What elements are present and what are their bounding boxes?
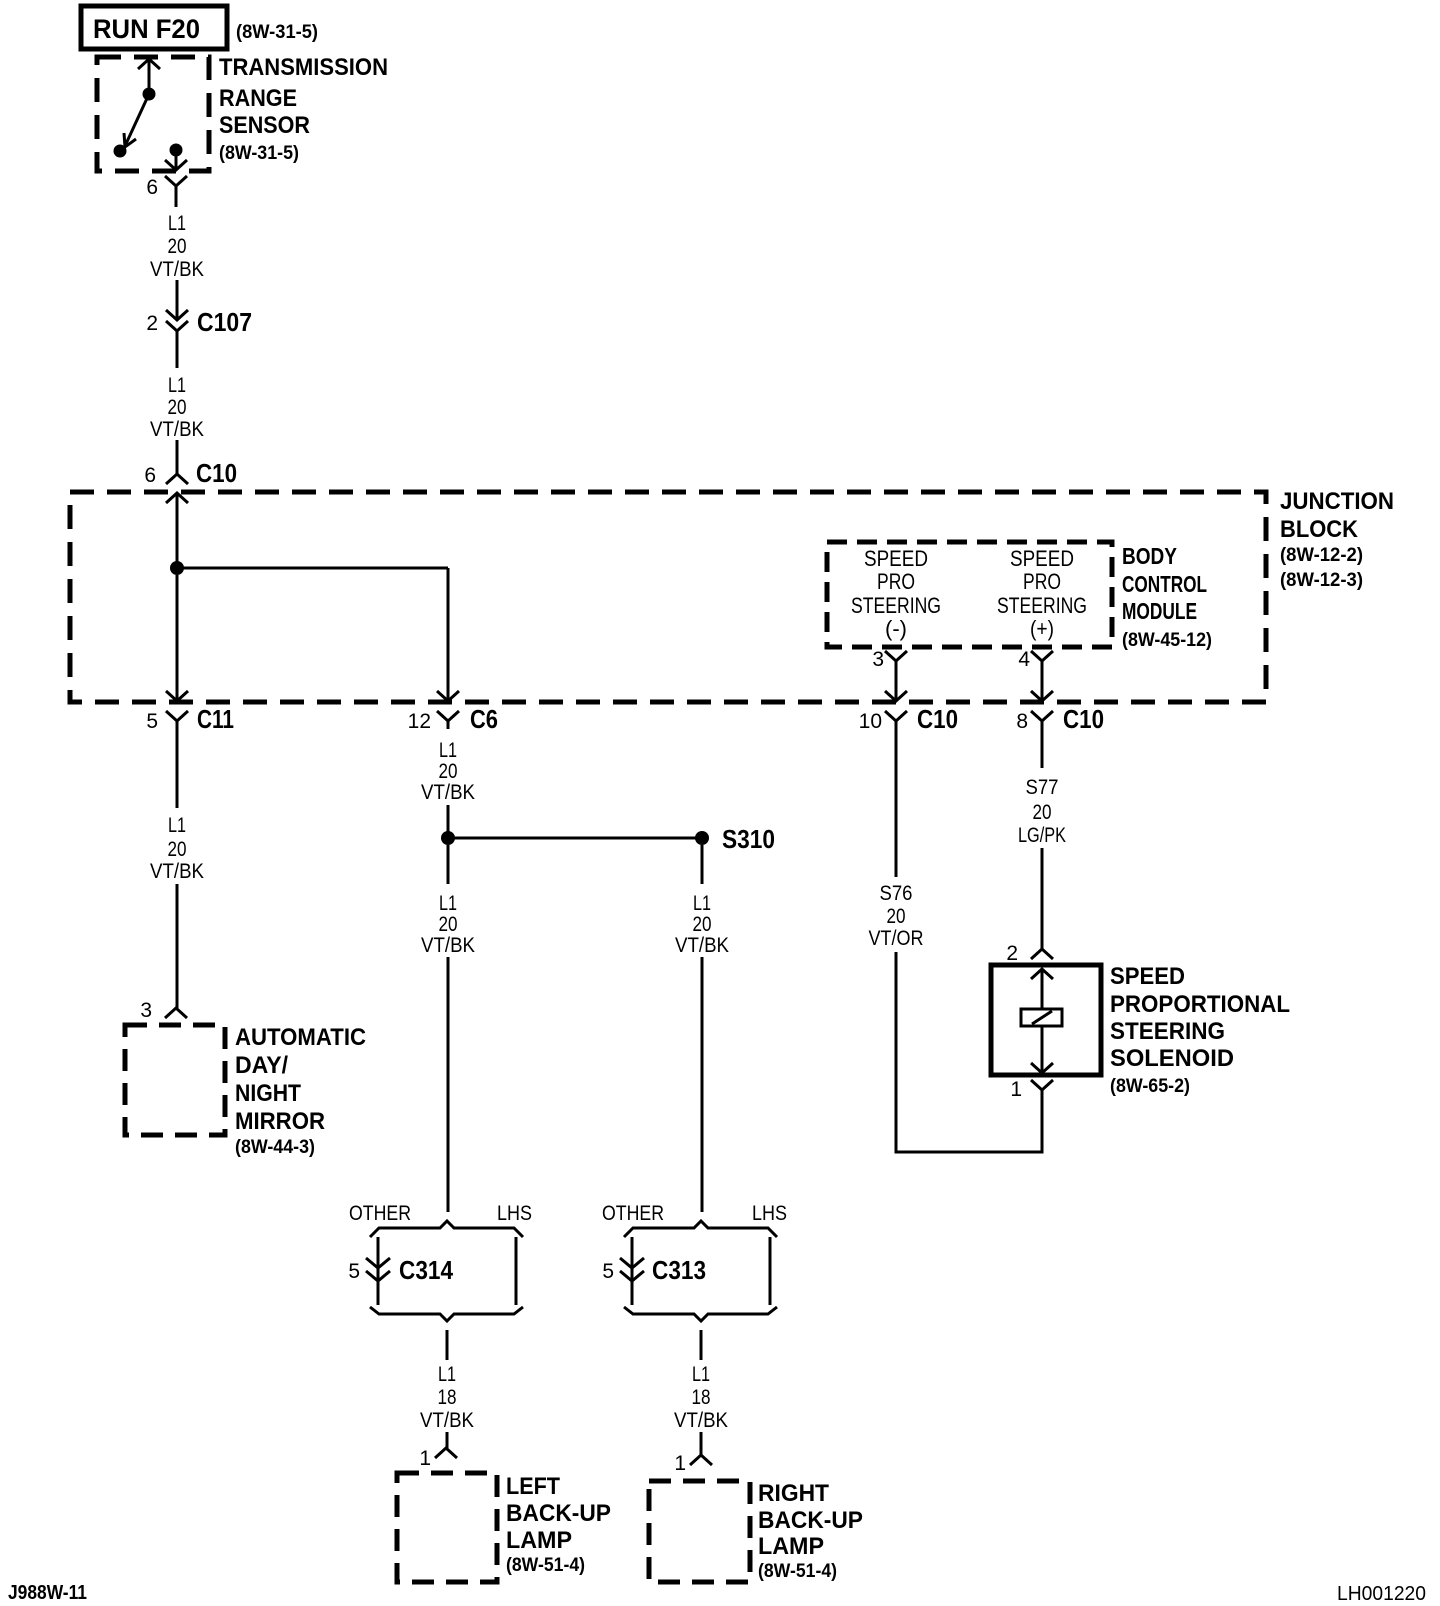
wire label S77 20 LG/PK [1018, 776, 1066, 847]
svg-text:STEERING: STEERING [997, 593, 1087, 618]
svg-text:SPEED: SPEED [1110, 963, 1185, 990]
svg-text:(8W-65-2): (8W-65-2) [1110, 1076, 1190, 1097]
switch stationary contact dot left [114, 145, 127, 158]
svg-text:BLOCK: BLOCK [1280, 516, 1359, 543]
svg-text:(8W-12-2): (8W-12-2) [1280, 545, 1363, 566]
splice name S310 [722, 824, 775, 854]
svg-text:AUTOMATIC: AUTOMATIC [235, 1024, 366, 1051]
svg-text:1: 1 [419, 1447, 431, 1470]
wire S310 right branch down [701, 845, 704, 884]
wire C10-10 down [895, 729, 898, 877]
wire label L1 20 VT/BK segment 2 [150, 374, 204, 441]
pin 8 label [1016, 710, 1028, 733]
svg-text:BODY: BODY [1122, 543, 1177, 569]
svg-text:BACK-UP: BACK-UP [506, 1500, 611, 1527]
wire label L1 20 VT/BK left branch [421, 892, 475, 957]
svg-text:SPEED: SPEED [864, 546, 928, 571]
wire to left lamp [446, 1432, 449, 1448]
svg-text:SOLENOID: SOLENOID [1110, 1045, 1234, 1072]
solenoid box [991, 965, 1101, 1075]
svg-text:18: 18 [692, 1386, 711, 1409]
wire label L1 18 VT/BK left lamp [420, 1363, 474, 1432]
solenoid name text [1110, 963, 1290, 1097]
reference (8W-31-5) for RUN F20 [236, 22, 318, 43]
left back-up lamp dashed box [397, 1473, 497, 1582]
pin 1 label at right lamp [674, 1452, 686, 1475]
svg-text:L1: L1 [692, 1363, 710, 1386]
wire C11 down [176, 728, 179, 808]
node junction dot inside block [170, 561, 184, 575]
svg-text:PRO: PRO [877, 569, 915, 594]
svg-text:SENSOR: SENSOR [219, 112, 310, 139]
right lamp text [758, 1480, 863, 1582]
connector fork C6 pin 12 [437, 711, 459, 729]
svg-text:3: 3 [140, 999, 152, 1022]
BCM pin label speed pro steering plus [997, 546, 1087, 641]
svg-text:STEERING: STEERING [1110, 1018, 1225, 1045]
splice S310 right dot [695, 831, 709, 845]
svg-text:TRANSMISSION: TRANSMISSION [219, 54, 388, 81]
connector fork BCM pin 3 [885, 651, 907, 666]
wire C6 to splice S310 [447, 805, 450, 838]
mirror label text [235, 1024, 366, 1158]
arrow inside solenoid bottom [1031, 1063, 1053, 1073]
connector name C314 [399, 1255, 453, 1285]
svg-text:BACK-UP: BACK-UP [758, 1507, 863, 1534]
wire C10-8 down [1041, 729, 1044, 768]
svg-text:OTHER: OTHER [602, 1202, 664, 1225]
pin 5 label at C314 [348, 1260, 360, 1283]
connector C314 left branch with chevrons [366, 1237, 390, 1305]
svg-text:C10: C10 [1063, 704, 1104, 734]
svg-text:VT/BK: VT/BK [674, 1409, 728, 1432]
svg-text:STEERING: STEERING [851, 593, 941, 618]
connector C313 bracket bottom [624, 1307, 777, 1321]
pin 5 label at C313 [602, 1260, 614, 1283]
svg-text:1: 1 [674, 1452, 686, 1475]
svg-text:VT/BK: VT/BK [420, 1409, 474, 1432]
svg-text:L1: L1 [438, 1363, 456, 1386]
svg-text:VT/BK: VT/BK [675, 934, 729, 957]
label OTHER at C313 [602, 1202, 664, 1225]
connector fork C10 pin 6 [166, 474, 188, 484]
connector fork C10 pin 8 [1031, 711, 1053, 729]
svg-text:VT/BK: VT/BK [150, 860, 204, 883]
splice S310 left dot [441, 831, 455, 845]
svg-text:L1: L1 [168, 814, 186, 837]
svg-text:LEFT: LEFT [506, 1473, 560, 1500]
svg-text:JUNCTION: JUNCTION [1280, 488, 1394, 515]
svg-text:VT/BK: VT/BK [150, 258, 204, 281]
connector fork BCM pin 4 [1031, 651, 1053, 666]
svg-text:C10: C10 [917, 704, 958, 734]
wire label S76 20 VT/OR [869, 882, 924, 950]
svg-text:(8W-45-12): (8W-45-12) [1122, 630, 1212, 651]
svg-text:S76: S76 [880, 882, 913, 905]
wire to right lamp [700, 1432, 703, 1455]
pin 10 label [859, 710, 882, 733]
wire BCM pin 3 to C10-10 [885, 666, 907, 701]
pin 5 label at C11 [146, 710, 158, 733]
svg-text:C11: C11 [197, 704, 234, 734]
svg-text:C107: C107 [197, 307, 252, 337]
svg-text:20: 20 [887, 905, 906, 928]
pin 6 label at C10 [144, 464, 156, 487]
svg-text:LH001220: LH001220 [1337, 1583, 1426, 1605]
connector C314 bracket bottom [370, 1307, 523, 1321]
svg-text:DAY/: DAY/ [235, 1052, 288, 1079]
wire from contact to pin 6 with arrow [165, 156, 187, 170]
pin 1 label at left lamp [419, 1447, 431, 1470]
wire node to C6 branch horizontal [177, 567, 448, 570]
svg-text:SPEED: SPEED [1010, 546, 1074, 571]
svg-text:LAMP: LAMP [506, 1527, 572, 1554]
svg-text:VT/BK: VT/BK [421, 781, 475, 804]
svg-text:L1: L1 [439, 739, 457, 762]
svg-text:LHS: LHS [497, 1202, 532, 1225]
svg-text:20: 20 [439, 760, 458, 783]
connector fork solenoid pin 2 [1031, 949, 1053, 959]
connector name C10 pin8 [1063, 704, 1104, 734]
connector name C313 [652, 1255, 706, 1285]
body control module dashed box [827, 542, 1112, 647]
wire label L1 20 VT/BK right branch [675, 892, 729, 957]
svg-text:(8W-44-3): (8W-44-3) [235, 1137, 315, 1158]
svg-text:18: 18 [438, 1386, 457, 1409]
connector fork left lamp pin 1 [435, 1448, 457, 1458]
wire label L1 18 VT/BK right lamp [674, 1363, 728, 1432]
svg-text:VT/BK: VT/BK [150, 418, 204, 441]
svg-text:NIGHT: NIGHT [235, 1080, 301, 1107]
svg-text:4: 4 [1018, 648, 1030, 671]
svg-text:S77: S77 [1026, 776, 1059, 799]
svg-text:20: 20 [693, 913, 712, 936]
svg-text:20: 20 [168, 838, 187, 861]
arrow at C6 exit [437, 691, 459, 701]
junction block dashed outline [70, 492, 1266, 702]
arrow inside solenoid top [1031, 969, 1053, 979]
svg-text:6: 6 [146, 176, 158, 199]
svg-text:(-): (-) [885, 616, 907, 641]
label LHS at C314 [497, 1202, 532, 1225]
svg-text:12: 12 [408, 710, 431, 733]
BCM pin label speed pro steering minus [851, 546, 941, 641]
connector fork mirror pin 3 [165, 1008, 187, 1018]
svg-text:RUN F20: RUN F20 [93, 14, 200, 44]
svg-text:VT/BK: VT/BK [421, 934, 475, 957]
wire down to C313 [701, 957, 704, 1212]
svg-text:RIGHT: RIGHT [758, 1480, 829, 1507]
connector C313 bracket top [624, 1221, 777, 1237]
footer drawing number left [8, 1582, 87, 1604]
arrow entering junction block at C10-6 [166, 493, 188, 503]
connector fork C10 pin 10 [885, 711, 907, 729]
svg-text:20: 20 [439, 913, 458, 936]
svg-text:MODULE: MODULE [1122, 598, 1197, 624]
pin 2 label at solenoid [1006, 942, 1018, 965]
connector C314 bracket top [370, 1221, 523, 1237]
svg-text:PRO: PRO [1023, 569, 1061, 594]
wire TRS to C107 [176, 280, 179, 318]
svg-text:5: 5 [146, 710, 158, 733]
svg-text:5: 5 [348, 1260, 360, 1283]
right back-up lamp dashed box [649, 1481, 750, 1582]
switch contact dot pin 6 [170, 144, 183, 157]
pin 3 label at BCM [872, 648, 884, 671]
svg-text:10: 10 [859, 710, 882, 733]
svg-text:(8W-31-5): (8W-31-5) [219, 143, 299, 164]
pin 3 label at mirror [140, 999, 152, 1022]
svg-text:L1: L1 [168, 212, 186, 235]
connector fork C11 pin 5 [166, 711, 188, 728]
svg-text:L1: L1 [693, 892, 711, 915]
connector name C10 pin10 [917, 704, 958, 734]
TRS label text [219, 54, 388, 164]
wire down to C314 [447, 957, 450, 1212]
svg-text:OTHER: OTHER [349, 1202, 411, 1225]
wire label L1 20 VT/BK below C11 [150, 814, 204, 883]
svg-text:L1: L1 [439, 892, 457, 915]
pin 12 label at C6 [408, 710, 431, 733]
svg-text:C10: C10 [196, 458, 237, 488]
label LHS at C313 [752, 1202, 787, 1225]
svg-text:MIRROR: MIRROR [235, 1108, 325, 1135]
splice S310 horizontal wire [448, 837, 702, 840]
connector fork solenoid pin 1 [1031, 1080, 1053, 1090]
svg-text:20: 20 [1033, 801, 1052, 824]
wire label L1 20 VT/BK segment 1 [150, 212, 204, 281]
svg-text:(8W-31-5): (8W-31-5) [236, 22, 318, 43]
svg-text:20: 20 [168, 396, 187, 419]
svg-text:LAMP: LAMP [758, 1533, 824, 1560]
solenoid coil rectangle [1021, 1009, 1062, 1026]
switch arrow to RUN F20 [138, 59, 160, 94]
wire label L1 20 VT/BK below C6 [421, 739, 475, 804]
connector name C11 [197, 704, 234, 734]
switch pivot contact dot [143, 88, 156, 101]
svg-text:8: 8 [1016, 710, 1028, 733]
pin 1 label at solenoid [1010, 1078, 1022, 1101]
BCM name text [1122, 543, 1212, 651]
transmission range sensor dashed box [97, 57, 209, 171]
svg-text:CONTROL: CONTROL [1122, 571, 1207, 597]
arrow at C11 exit [166, 691, 188, 701]
left lamp text [506, 1473, 611, 1576]
connector C314 right branch [515, 1237, 518, 1305]
solenoid internal wire top [1041, 969, 1044, 1009]
svg-text:(8W-12-3): (8W-12-3) [1280, 570, 1363, 591]
pin 4 label at BCM [1018, 648, 1030, 671]
wire below C313 [700, 1330, 703, 1360]
svg-text:(+): (+) [1030, 616, 1054, 641]
connector C313 left branch with chevrons [620, 1237, 644, 1305]
label OTHER at C314 [349, 1202, 411, 1225]
wire node down to C11 [176, 575, 179, 700]
connector fork pin 6 TRS [165, 176, 187, 207]
svg-text:VT/OR: VT/OR [869, 927, 924, 950]
svg-text:2: 2 [1006, 942, 1018, 965]
svg-text:6: 6 [144, 464, 156, 487]
svg-text:5: 5 [602, 1260, 614, 1283]
connector C313 right branch [769, 1237, 772, 1305]
connector name C10 top [196, 458, 237, 488]
svg-text:J988W-11: J988W-11 [8, 1582, 87, 1604]
wire S310 left branch down [447, 845, 450, 884]
svg-text:(8W-51-4): (8W-51-4) [758, 1561, 837, 1582]
svg-text:C313: C313 [652, 1255, 706, 1285]
junction block label [1280, 488, 1394, 591]
wire C107 to C10 [176, 440, 179, 474]
fuse output RUN F20 box [81, 6, 227, 49]
connector name C107 [197, 307, 252, 337]
svg-text:3: 3 [872, 648, 884, 671]
svg-text:2: 2 [146, 312, 158, 335]
wire inside junction block down to node [176, 493, 179, 568]
pin 2 label at C107 [146, 312, 158, 335]
pin 6 label of TRS [146, 176, 158, 199]
svg-text:L1: L1 [168, 374, 186, 397]
svg-text:PROPORTIONAL: PROPORTIONAL [1110, 991, 1290, 1018]
svg-text:C6: C6 [470, 704, 498, 734]
wire branch down to C6 [447, 568, 450, 700]
wire S77 to solenoid pin 2 [1041, 848, 1044, 949]
wire BCM pin 4 to C10-8 [1031, 666, 1053, 701]
svg-text:S310: S310 [722, 824, 775, 854]
connector fork right lamp pin 1 [690, 1455, 712, 1465]
svg-text:1: 1 [1010, 1078, 1022, 1101]
svg-text:C314: C314 [399, 1255, 453, 1285]
wire S76 to solenoid pin 1 [896, 952, 1042, 1152]
wire below C314 [446, 1330, 449, 1360]
in-line connector C107 [166, 310, 188, 368]
svg-text:(8W-51-4): (8W-51-4) [506, 1555, 585, 1576]
switch movable arm with arrowhead [124, 94, 149, 147]
svg-text:RANGE: RANGE [219, 85, 297, 112]
connector name C6 [470, 704, 498, 734]
automatic day/night mirror dashed box [125, 1025, 225, 1135]
svg-text:LHS: LHS [752, 1202, 787, 1225]
svg-text:LG/PK: LG/PK [1018, 824, 1066, 847]
footer drawing number right [1337, 1583, 1426, 1605]
svg-text:20: 20 [168, 235, 187, 258]
wire to automatic mirror [176, 884, 179, 1008]
solenoid internal wire bottom [1041, 1026, 1044, 1073]
